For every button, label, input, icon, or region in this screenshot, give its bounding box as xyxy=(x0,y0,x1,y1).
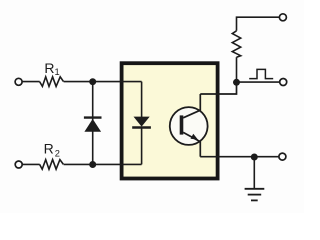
node junction emitter xyxy=(251,154,258,161)
node junction collector xyxy=(233,79,240,86)
optocoupler U1 body xyxy=(122,63,218,178)
wire R2 to LED cathode xyxy=(64,163,142,165)
svg-text:2: 2 xyxy=(55,149,60,159)
svg-text:1: 1 xyxy=(55,67,60,77)
wire pull-up to supply terminal xyxy=(237,17,280,31)
wire node up to pull-up resistor xyxy=(236,57,238,82)
svg-text:R: R xyxy=(44,140,54,156)
wire node to output terminal xyxy=(237,81,280,83)
terminal supply xyxy=(279,14,286,21)
resistor R1 xyxy=(40,77,64,87)
phototransistor Q1 xyxy=(170,107,208,145)
wire emitter to ground node xyxy=(200,156,254,158)
wire input top to R1 xyxy=(22,81,40,83)
svg-text:R: R xyxy=(44,60,54,76)
wire collector-emitter vertical xyxy=(199,94,201,157)
label R1 xyxy=(44,60,59,77)
terminal emitter output xyxy=(279,153,286,160)
wire input bottom to R2 xyxy=(22,163,40,165)
wire R1 to LED anode xyxy=(64,81,142,83)
LED D2 (inside optocoupler, pointing down) xyxy=(132,82,151,165)
pulse waveform symbol xyxy=(249,69,273,78)
wire diode D1 vertical xyxy=(92,82,94,165)
terminal output pulse xyxy=(280,79,287,86)
terminal input bottom xyxy=(15,161,22,168)
diode D1 (protection, pointing up) xyxy=(84,118,102,132)
node junction bottom-left xyxy=(89,161,96,168)
resistor R2 xyxy=(40,160,64,170)
ground xyxy=(245,157,265,200)
label R2 xyxy=(44,140,60,158)
node junction top-left xyxy=(89,78,96,85)
terminal input top xyxy=(15,78,22,85)
wire collector to node xyxy=(200,82,236,94)
wire node to emitter terminal xyxy=(254,156,279,158)
pull-up resistor xyxy=(232,31,240,57)
